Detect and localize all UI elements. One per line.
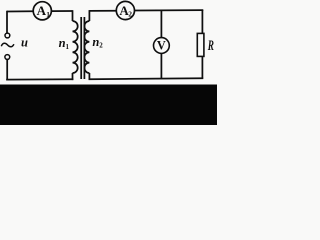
svg-text:2: 2 bbox=[128, 10, 132, 19]
transformer core line left bbox=[80, 17, 82, 79]
transformer core line right bbox=[83, 17, 85, 79]
svg-text:1: 1 bbox=[66, 43, 70, 51]
AC tilde symbol bbox=[1, 43, 14, 47]
wire voltmeter branch lower bbox=[160, 53, 162, 79]
wire right edge lower bbox=[201, 56, 203, 78]
black scan band bbox=[0, 85, 217, 126]
wire primary bottom stem bbox=[72, 73, 74, 80]
wire primary top drop bbox=[72, 10, 74, 21]
wire bottom right loop bbox=[89, 77, 204, 80]
wire bottom left loop bbox=[6, 78, 73, 80]
terminal upper bbox=[5, 33, 10, 38]
wire secondary bottom stem bbox=[88, 73, 90, 80]
inductor primary winding n1 bbox=[73, 21, 78, 73]
wire voltmeter branch upper bbox=[160, 11, 162, 38]
svg-text:u: u bbox=[21, 36, 28, 50]
voltmeter V bbox=[154, 38, 170, 54]
svg-text:V: V bbox=[157, 39, 166, 53]
resistor R bbox=[197, 33, 204, 56]
svg-text:2: 2 bbox=[99, 42, 103, 50]
svg-text:R: R bbox=[207, 37, 214, 54]
ammeter A1 bbox=[33, 2, 51, 20]
ammeter A2 bbox=[116, 1, 134, 19]
wire secondary top stem bbox=[88, 10, 90, 21]
wire top-left horizontal bbox=[7, 10, 33, 12]
inductor secondary winding n2 bbox=[84, 21, 89, 73]
terminal lower bbox=[5, 55, 10, 60]
svg-text:A: A bbox=[37, 3, 47, 18]
svg-text:1: 1 bbox=[46, 10, 50, 19]
wire left edge upper bbox=[6, 11, 8, 34]
wire secondary top horizontal to A2 bbox=[89, 10, 116, 12]
wire right edge upper bbox=[201, 10, 203, 33]
wire A1 to transformer corner bbox=[52, 10, 73, 12]
wire left edge lower bbox=[6, 59, 8, 80]
wire A2 to top-right corner bbox=[135, 9, 204, 11]
